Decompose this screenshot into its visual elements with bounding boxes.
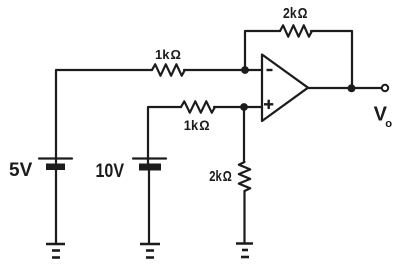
svg-text:2k Ω: 2k Ω [209,168,232,185]
svg-text:o: o [385,118,392,130]
svg-text:10V: 10V [96,161,125,182]
svg-text:2k Ω: 2k Ω [283,6,308,22]
svg-text:1k Ω: 1k Ω [184,117,210,133]
svg-text:5V: 5V [9,160,33,181]
svg-text:1k Ω: 1k Ω [155,47,181,62]
